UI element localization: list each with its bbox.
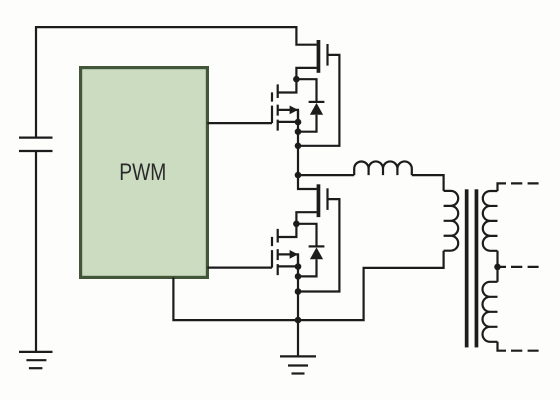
ground GND2 (bottom) — [280, 356, 316, 373]
wire: secondary center tap — [496, 251, 498, 282]
inductor L1 (4 arches) — [354, 161, 412, 175]
transistor Q2 body arrow — [290, 106, 298, 115]
wire: Q4 drain to node A2 — [278, 224, 297, 237]
wire: cap to left ground — [35, 151, 37, 352]
wire: bottom node to ground GND2 — [297, 320, 299, 356]
transformer T1 secondary upper winding (4 turns) — [483, 191, 490, 251]
wire: center tap dashed lead — [498, 266, 539, 268]
wire: PWM bottom lead to bottom node — [173, 277, 298, 320]
wire: D1 anode to source column — [298, 115, 317, 132]
node C2 junction dot (D2 anode) — [295, 273, 302, 280]
wire: Q3 gate to lower cascode node — [298, 199, 339, 291]
transistor Q3 gate bar — [326, 188, 328, 210]
ground GND1 (left) — [19, 352, 53, 368]
diode D2 triangle — [310, 247, 323, 259]
transformer T1 secondary upper stubs — [490, 191, 498, 251]
wire: transformer primary bottom return to bottom node — [298, 251, 444, 320]
wire: D2 anode to lower source column — [298, 259, 317, 276]
wire: midpoint node to inductor — [298, 174, 354, 176]
wire: Q2 source stub — [278, 121, 298, 123]
transistor Q4 gate bar (two segments) — [271, 237, 273, 268]
transformer T1 primary stubs — [444, 191, 451, 251]
capacitor C1 bottom plate — [19, 150, 53, 152]
transformer T1 primary winding (4 turns) — [451, 191, 458, 251]
wire: secondary bottom dashed lead — [511, 350, 539, 352]
svg-text:PWM: PWM — [119, 159, 166, 186]
node G center tap junction dot — [494, 264, 501, 271]
node F bottom junction dot — [295, 317, 302, 324]
PWM controller block U1 — [81, 68, 208, 278]
wire: PWM upper output to Q2 gate — [207, 122, 272, 124]
wire: Q2 drain to node A — [278, 79, 297, 92]
diode D2 cathode bar — [309, 245, 325, 247]
transformer T1 core bar 1 — [465, 189, 469, 347]
wire: Q3 source to node A2 — [296, 212, 316, 224]
wire: PWM lower output to Q4 gate — [207, 267, 272, 269]
node B junction dot (Q2 source) — [295, 119, 302, 126]
node A junction dot — [293, 76, 300, 83]
transistor Q1 gate bar — [326, 44, 328, 66]
node C junction dot (D1 anode) — [295, 128, 302, 135]
node D junction dot (Q1 gate return) — [295, 143, 302, 150]
transistor Q4 body arrow — [290, 250, 298, 259]
diode D1 triangle — [310, 103, 323, 115]
wire: Q2 body stub — [278, 110, 298, 122]
wire: lower source column to bottom node — [297, 254, 299, 320]
node E midpoint junction dot — [295, 172, 302, 179]
wire: node A to diode D1 cathode — [296, 79, 316, 102]
wire: Q4 body stub — [278, 254, 298, 266]
wire: inductor to transformer primary top — [412, 175, 444, 191]
wire: source column down to midpoint node — [297, 110, 299, 175]
transistor Q2 gate bar (two segments) — [271, 92, 273, 123]
node D2 junction dot (Q3 gate return) — [295, 288, 302, 295]
transistor Q1: upper JFET channel bar — [317, 40, 321, 73]
wire: midpoint to Q3 drain — [298, 175, 317, 189]
wire: secondary top lead — [498, 183, 507, 191]
transformer T1 secondary lower winding (4 turns) — [483, 282, 490, 342]
transistor Q4 channel (three segments) — [277, 229, 279, 275]
wire: top rail from input cap to upper switch drain — [36, 27, 317, 138]
node A2 junction dot — [293, 221, 300, 228]
transistor Q2 channel (three segments) — [277, 84, 279, 130]
transistor Q3: lower JFET channel bar — [317, 184, 321, 217]
wire: node A2 to diode D2 cathode — [296, 224, 316, 247]
wire: secondary bottom lead — [498, 342, 507, 351]
wire: Q1 source to node A — [296, 68, 316, 79]
transformer T1 core bar 2 — [475, 189, 479, 347]
capacitor C1 top plate — [19, 137, 53, 139]
transformer T1 secondary lower stubs — [490, 282, 498, 342]
wire: Q4 source stub — [278, 265, 298, 267]
node B2 junction dot (Q4 source) — [295, 263, 302, 270]
wire: Q1 gate to cascode node — [298, 55, 339, 146]
wire: secondary top dashed lead — [511, 182, 539, 184]
diode D1 cathode bar — [309, 101, 325, 103]
